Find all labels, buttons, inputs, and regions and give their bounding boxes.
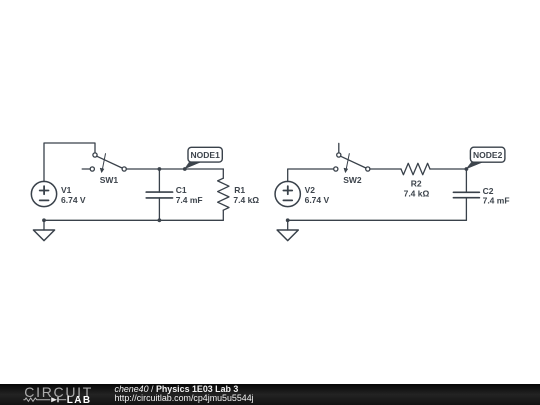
switch SW1 — [82, 153, 126, 173]
node junction dot C1 top — [158, 167, 162, 171]
logo diode — [51, 397, 57, 402]
svg-text:NODE1: NODE1 — [191, 150, 221, 160]
wire R2 to NODE2 — [430, 168, 466, 170]
svg-text:R1: R1 — [234, 185, 245, 195]
ground (left) — [33, 220, 54, 240]
footer text — [115, 385, 254, 404]
wire V1 top to SW1 — [44, 143, 95, 182]
wire V2 top to SW2 — [288, 169, 334, 182]
footer bar — [0, 384, 540, 405]
capacitor C2 — [453, 169, 479, 220]
svg-text:7.4 mF: 7.4 mF — [176, 195, 203, 205]
capacitor C1 — [146, 169, 172, 220]
voltage source V2 — [275, 181, 300, 206]
node junction dot NODE1 attach — [183, 167, 187, 171]
resistor R1 — [218, 169, 229, 220]
svg-text:C1: C1 — [176, 185, 187, 195]
junction dot NODE2 — [465, 167, 469, 171]
svg-text:SW2: SW2 — [343, 175, 362, 185]
svg-text:V2: V2 — [305, 185, 316, 195]
node NODE1 flag — [185, 147, 223, 168]
svg-text:6.74 V: 6.74 V — [305, 195, 330, 205]
bottom rail wire right circuit — [288, 219, 467, 221]
switch SW2 — [334, 143, 370, 172]
node NODE2 flag — [466, 147, 505, 169]
svg-text:SW1: SW1 — [100, 175, 119, 185]
wire SW1 to R1 top rail — [126, 168, 223, 170]
svg-text:7.4 kΩ: 7.4 kΩ — [404, 189, 430, 199]
voltage source V1 — [31, 181, 56, 206]
wire SW2 to R2 — [370, 168, 401, 170]
svg-text:R2: R2 — [411, 178, 422, 188]
svg-text:6.74 V: 6.74 V — [61, 195, 86, 205]
junction dot C1 bottom — [158, 218, 162, 222]
CircuitLab logo — [0, 384, 100, 405]
junction dot V2 bottom — [286, 218, 290, 222]
svg-text:V1: V1 — [61, 185, 72, 195]
bottom rail wire left circuit — [44, 219, 223, 221]
svg-text:7.4 kΩ: 7.4 kΩ — [233, 195, 259, 205]
ground (right) — [277, 220, 298, 240]
svg-text:LAB: LAB — [67, 395, 92, 405]
logo waveform resistor — [23, 398, 50, 401]
svg-text:C2: C2 — [483, 186, 494, 196]
svg-text:7.4 mF: 7.4 mF — [483, 196, 510, 206]
resistor R2 — [401, 163, 430, 174]
svg-text:NODE2: NODE2 — [473, 150, 503, 160]
junction dot V1 bottom — [42, 218, 46, 222]
